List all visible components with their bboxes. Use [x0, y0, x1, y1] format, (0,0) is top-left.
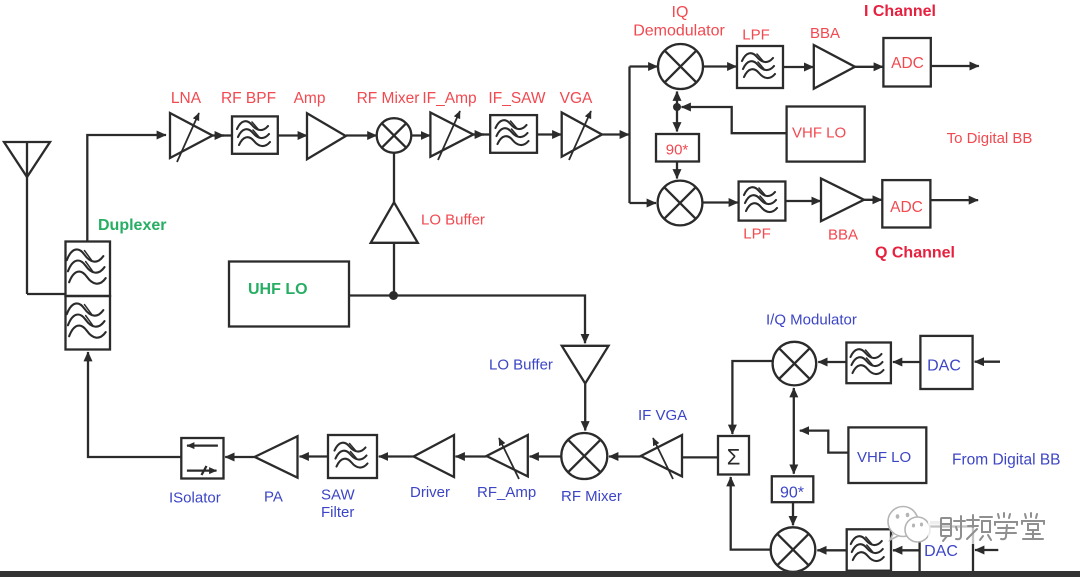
UHF LO box — [229, 262, 349, 327]
svg-text:RF_Amp: RF_Amp — [477, 484, 536, 501]
mixer Q demod — [658, 181, 703, 226]
wire duplexer to LNA — [87, 135, 166, 242]
amplifier IF VGA (TX, pointing left) — [641, 435, 682, 479]
svg-text:I/Q Modulator: I/Q Modulator — [766, 312, 857, 329]
svg-text:90*: 90* — [780, 485, 804, 502]
svg-text:ADC: ADC — [891, 55, 924, 72]
svg-text:Amp: Amp — [294, 90, 326, 107]
wire 90 box to Q mixer — [676, 162, 678, 179]
wire to Q mixer — [630, 202, 657, 204]
DAC box (I) — [920, 336, 972, 389]
wire TX mixer to RF_Amp — [530, 455, 562, 457]
svg-text:DAC: DAC — [927, 358, 961, 375]
wire LO buffer to junction — [393, 243, 395, 296]
amplifier Amp — [307, 113, 346, 159]
wire Q mixer to LPF — [702, 201, 738, 203]
90 degree box (RX) — [656, 134, 699, 162]
svg-text:VHF LO: VHF LO — [792, 125, 846, 142]
filter I DAC path — [846, 343, 891, 384]
svg-text:Driver: Driver — [410, 484, 450, 501]
svg-text:ISolator: ISolator — [169, 490, 221, 507]
amplifier Driver (pointing left) — [414, 435, 454, 477]
wire RF mixer to IF_Amp — [411, 134, 430, 136]
svg-text:Demodulator: Demodulator — [633, 23, 725, 40]
sigma box — [718, 436, 749, 475]
svg-text:RF Mixer: RF Mixer — [357, 90, 420, 107]
wire 90 box to Q mod mixer — [792, 502, 794, 525]
wire Driver to SAW filter — [379, 455, 414, 457]
watermark dash — [930, 521, 942, 524]
wire isolator to duplexer — [88, 352, 181, 457]
duplexer top filter box — [66, 242, 111, 297]
ADC box (Q) — [882, 180, 930, 227]
wire filter to Q mod mixer — [817, 549, 846, 551]
svg-text:To Digital BB: To Digital BB — [947, 130, 1033, 147]
VHF LO box (TX) — [848, 427, 926, 483]
mixer RF Mixer (RX) — [377, 118, 412, 153]
wire IF VGA to TX mixer — [609, 455, 641, 457]
wire TX LO buffer to TX mixer — [584, 384, 586, 431]
wire IF_Amp to IF_SAW — [473, 133, 484, 135]
wire sigma to IF VGA — [682, 456, 718, 458]
buffer LO Buffer (TX, pointing down) — [562, 346, 609, 384]
amplifier LNA — [170, 113, 213, 162]
svg-text:I Channel: I Channel — [864, 3, 936, 20]
filter RF BPF — [232, 116, 278, 153]
duplexer bottom filter box — [66, 296, 111, 350]
wire LNA to RF BPF — [213, 134, 225, 136]
wire LPF to BBA (I) — [783, 66, 813, 68]
wire IQ demod split vertical — [628, 67, 630, 204]
wire I mod mixer to sigma — [732, 361, 772, 434]
wire filter to I mod mixer — [818, 361, 846, 363]
amplifier PA (pointing left) — [255, 436, 298, 478]
filter Q DAC path — [847, 529, 891, 570]
wire DAC to filter (Q) — [893, 549, 920, 551]
filter LPF (I) — [737, 46, 783, 88]
svg-text:RF BPF: RF BPF — [221, 90, 276, 107]
wire I mixer to 90 box (double arrow) — [676, 92, 678, 132]
svg-text:Σ: Σ — [727, 445, 741, 470]
svg-text:RF Mixer: RF Mixer — [561, 488, 622, 505]
90 degree box (TX) — [772, 476, 814, 502]
hanzi pin — [967, 515, 992, 540]
wire PA to isolator — [225, 456, 255, 458]
wire Amp to RF mixer — [346, 134, 377, 136]
svg-text:PA: PA — [264, 489, 283, 506]
mixer RF Mixer (TX) — [561, 433, 607, 479]
buffer LO Buffer (RX, pointing up) — [371, 202, 418, 243]
svg-text:DAC: DAC — [924, 543, 958, 560]
isolator box — [181, 438, 223, 479]
svg-text:From Digital BB: From Digital BB — [952, 452, 1061, 469]
svg-text:Q Channel: Q Channel — [875, 245, 955, 262]
svg-text:IF_SAW: IF_SAW — [488, 90, 545, 107]
amplifier BBA (Q) — [821, 179, 864, 222]
hanzi xue — [995, 513, 1017, 539]
wire RF mixer to LO buffer (RX) — [393, 153, 395, 202]
svg-text:BBA: BBA — [810, 25, 840, 42]
bottom bar — [0, 571, 1080, 577]
watermark text (stylized hanzi strokes) — [928, 506, 1052, 544]
svg-text:90*: 90* — [666, 142, 689, 159]
wire Q mod mixer to sigma — [731, 477, 771, 550]
wire VHF LO to TX junction — [800, 431, 849, 453]
filter IF_SAW — [490, 115, 537, 153]
mixer I demod — [658, 44, 703, 89]
svg-text:SAW: SAW — [321, 487, 355, 504]
hanzi tang — [1022, 513, 1044, 539]
svg-text:BBA: BBA — [828, 227, 858, 244]
amplifier IF_Amp — [430, 111, 473, 160]
wire VHF LO to junction — [682, 107, 787, 133]
wire into DAC (Q) — [975, 549, 998, 551]
wire I mixer to LPF — [703, 65, 737, 67]
amplifier RF_Amp (pointing left) — [487, 435, 528, 479]
amplifier VGA — [562, 111, 602, 160]
svg-text:LO Buffer: LO Buffer — [489, 357, 553, 374]
wire BBA to ADC (Q) — [864, 199, 882, 201]
svg-text:Filter: Filter — [321, 504, 354, 521]
svg-text:LO Buffer: LO Buffer — [421, 212, 485, 229]
svg-text:VGA: VGA — [560, 90, 593, 107]
watermark logo bubbles — [888, 507, 930, 543]
wire SAW to PA — [300, 455, 329, 457]
wire mod mixer to 90 box (double arrow, TX) — [793, 388, 795, 474]
wire IF_SAW to VGA — [537, 133, 562, 135]
svg-text:LPF: LPF — [742, 27, 770, 44]
wire to I mixer — [630, 65, 658, 67]
wire VGA to IQ demod split — [602, 133, 629, 135]
wire DAC to filter (I) — [893, 361, 921, 363]
wire ADC out (Q) — [930, 199, 978, 201]
antenna — [4, 142, 50, 294]
mixer Q modulator (bottom) — [771, 527, 816, 572]
mixer I modulator (top) — [773, 342, 817, 386]
svg-text:IQ: IQ — [672, 4, 689, 21]
svg-text:UHF LO: UHF LO — [248, 281, 308, 298]
wire ADC out (I) — [931, 65, 979, 67]
wire into DAC (I) — [975, 361, 1000, 363]
amplifier BBA (I) — [814, 45, 855, 89]
VHF LO box (RX) — [787, 107, 865, 162]
junction dot UHF LO — [389, 291, 398, 300]
svg-text:LNA: LNA — [171, 90, 202, 107]
svg-text:ADC: ADC — [890, 199, 923, 216]
svg-text:LPF: LPF — [743, 226, 771, 243]
svg-text:VHF LO: VHF LO — [857, 449, 911, 466]
wire LPF to BBA (Q) — [785, 200, 820, 202]
hanzi she — [941, 516, 965, 541]
wire BBA to ADC (I) — [855, 66, 883, 68]
svg-text:IF_Amp: IF_Amp — [422, 90, 476, 107]
ADC box (I) — [883, 38, 930, 87]
junction dot — [673, 103, 681, 111]
wire RF_Amp to Driver — [456, 455, 487, 457]
wire UHF LO to TX LO buffer — [349, 296, 585, 344]
svg-text:Duplexer: Duplexer — [98, 217, 166, 234]
filter SAW — [328, 435, 377, 478]
filter LPF (Q) — [739, 182, 786, 221]
DAC box (Q) — [920, 527, 973, 574]
wire RF BPF to Amp — [278, 134, 307, 136]
wire antenna to duplexer — [27, 293, 66, 295]
svg-text:IF VGA: IF VGA — [638, 407, 687, 424]
